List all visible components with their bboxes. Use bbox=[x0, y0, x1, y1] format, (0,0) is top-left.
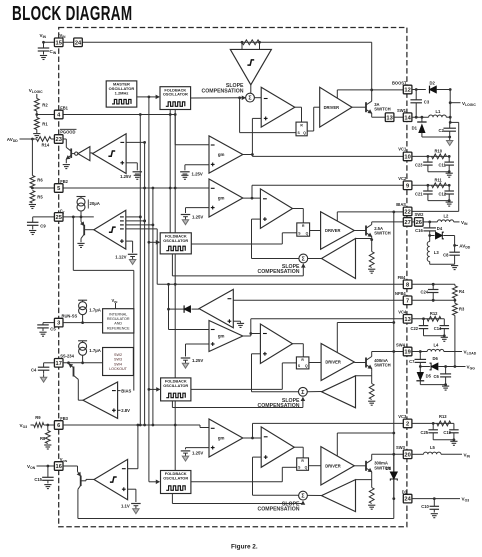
bus FB-A bbox=[139, 115, 141, 426]
svg-text:R11: R11 bbox=[435, 178, 443, 183]
resistor R8 bbox=[47, 425, 49, 431]
wire SW1 line bbox=[412, 116, 429, 118]
pin 3 RUN-SS bbox=[54, 318, 63, 327]
diode D6 bbox=[420, 366, 430, 368]
wire osc1 S to latch1 bbox=[238, 96, 241, 99]
inductor L5 bbox=[424, 452, 442, 454]
pin 12 BOOST bbox=[403, 85, 412, 94]
pin 16 VON bbox=[54, 462, 63, 471]
latch RS1 bbox=[296, 122, 307, 136]
svg-text:REGULATOR: REGULATOR bbox=[107, 317, 130, 321]
svg-text:Q: Q bbox=[305, 466, 308, 470]
comparator CMP2 bbox=[94, 210, 126, 249]
svg-text:8: 8 bbox=[406, 282, 409, 288]
svg-text:SW1: SW1 bbox=[397, 108, 407, 113]
svg-text:PGOOD: PGOOD bbox=[60, 129, 75, 134]
svg-text:AND: AND bbox=[114, 322, 122, 326]
capacitor C14 bbox=[443, 319, 445, 326]
wire clock to osc2 bbox=[148, 241, 151, 244]
wire AVDD col bbox=[454, 236, 456, 253]
ground gm3 ref bbox=[185, 453, 187, 456]
summer S2 bbox=[299, 254, 308, 263]
svg-text:SW4: SW4 bbox=[396, 342, 406, 347]
wires CMP2 FB inputs bbox=[126, 216, 141, 218]
wire VC1 to PWM1 plus bbox=[252, 117, 261, 119]
bus FB-D bbox=[152, 188, 154, 425]
ground NFB plus bbox=[233, 320, 240, 322]
svg-text:BLOCK DIAGRAM: BLOCK DIAGRAM bbox=[12, 1, 132, 25]
ground CMP4 ref bbox=[135, 506, 137, 509]
svg-text:6: 6 bbox=[57, 423, 60, 429]
svg-text:C21: C21 bbox=[415, 191, 423, 196]
pin 10 VC1 bbox=[403, 152, 412, 161]
svg-text:SW2: SW2 bbox=[114, 353, 122, 357]
svg-text:20µA: 20µA bbox=[90, 201, 100, 206]
capacitor C3 bbox=[415, 90, 417, 100]
ground Q3 emitter bbox=[368, 504, 375, 506]
wire clock osc4 bbox=[148, 481, 150, 483]
capacitor C9 bbox=[33, 216, 55, 218]
foldback oscillator 2 box bbox=[160, 233, 191, 254]
driver 1 bbox=[320, 87, 352, 127]
ground CMP2 ref bbox=[132, 257, 134, 260]
wire PWM3 plus loop bbox=[253, 456, 262, 458]
svg-text:L1: L1 bbox=[436, 109, 442, 114]
capacitor C6 bbox=[445, 367, 447, 374]
svg-text:COMPENSATION: COMPENSATION bbox=[258, 269, 300, 275]
svg-text:19: 19 bbox=[404, 350, 410, 356]
diode D2 bbox=[430, 86, 437, 94]
wire driver1 boost rail bbox=[336, 90, 338, 98]
wire PWM1 out to latch bbox=[295, 106, 302, 108]
ground gm1 ref bbox=[181, 174, 188, 176]
svg-text:C6: C6 bbox=[433, 374, 439, 379]
NFB plus bbox=[228, 320, 232, 322]
ground R1 bbox=[33, 133, 40, 135]
svg-text:Q: Q bbox=[305, 364, 308, 368]
capacitor C5 bbox=[43, 322, 54, 324]
svg-text:COMPENSATION: COMPENSATION bbox=[258, 403, 300, 409]
gm2 plus bbox=[211, 207, 215, 209]
svg-text:1.25V: 1.25V bbox=[192, 451, 203, 456]
svg-text:Q: Q bbox=[303, 131, 306, 135]
summer S3 bbox=[299, 491, 308, 500]
capacitor C25 bbox=[432, 423, 434, 429]
svg-text:REFERENCE: REFERENCE bbox=[107, 326, 130, 330]
NFB amplifier bbox=[199, 289, 233, 327]
pin 11 VC4 bbox=[403, 315, 412, 324]
ground CIN bbox=[40, 55, 47, 57]
transistor Q2 2.5A switch bbox=[365, 226, 367, 236]
wire sense2 top bbox=[356, 238, 372, 240]
svg-text:RUN-SS: RUN-SS bbox=[62, 313, 78, 318]
PWM1 plus bbox=[264, 117, 268, 119]
wire PWM3 out latch3 bbox=[294, 446, 303, 448]
svg-text:1.25V: 1.25V bbox=[192, 172, 203, 177]
svg-text:DRIVER: DRIVER bbox=[325, 463, 341, 468]
bus FB-B bbox=[144, 142, 146, 425]
transistor Q3 300mA switch bbox=[365, 461, 367, 471]
wire D3 out bbox=[412, 498, 460, 500]
driver 3 bbox=[321, 447, 354, 485]
diode D8 bbox=[393, 454, 395, 472]
svg-text:gm: gm bbox=[218, 436, 225, 441]
wire FB4 node down bbox=[168, 284, 170, 329]
svg-text:2: 2 bbox=[406, 422, 409, 428]
svg-text:SW3: SW3 bbox=[114, 358, 122, 362]
wire CMP3 2.8v bbox=[118, 409, 121, 411]
diode D1 bbox=[421, 117, 423, 121]
svg-text:C5: C5 bbox=[50, 326, 56, 331]
wire CMP3 bias bbox=[118, 390, 121, 392]
svg-text:1.25V: 1.25V bbox=[192, 214, 203, 219]
diode D5 bbox=[419, 367, 421, 373]
PWM comparator 1 bbox=[261, 87, 295, 127]
wire FB4 long bbox=[157, 283, 403, 285]
wire clock osc3 bbox=[148, 388, 151, 391]
driver 2 bbox=[321, 212, 355, 250]
svg-text:gm: gm bbox=[218, 152, 225, 157]
pin 22 BIAS bbox=[403, 207, 412, 216]
svg-text:R12: R12 bbox=[430, 311, 438, 316]
svg-text:SW3: SW3 bbox=[396, 445, 406, 450]
pin 2 VC3 bbox=[403, 419, 412, 428]
svg-text:VC2: VC2 bbox=[398, 176, 407, 181]
capacitor C19 bbox=[453, 423, 455, 429]
gm amp 3 bbox=[209, 419, 243, 457]
pin 4 FB1 bbox=[54, 110, 63, 119]
inductor L4 bbox=[427, 349, 444, 351]
resistor R14 bbox=[37, 137, 52, 142]
ground C15 bbox=[44, 484, 51, 486]
svg-text:C14: C14 bbox=[434, 326, 442, 331]
svg-text:OSCILLATOR: OSCILLATOR bbox=[163, 476, 188, 481]
wire Q4 emitter bbox=[371, 372, 373, 384]
gm4 minus bbox=[211, 329, 215, 331]
CMP4 minus bbox=[122, 468, 126, 470]
ground gm2 ref bbox=[185, 217, 187, 220]
svg-text:FB2: FB2 bbox=[60, 179, 68, 184]
capacitor C23 bbox=[427, 156, 429, 162]
svg-text:R8: R8 bbox=[40, 436, 46, 441]
wire gm3 out VC3 bbox=[243, 437, 261, 439]
pin 23 PGOOD bbox=[54, 135, 63, 144]
svg-text:R2: R2 bbox=[42, 102, 48, 107]
gm3 plus bbox=[211, 447, 215, 449]
svg-text:C19: C19 bbox=[443, 430, 451, 435]
pin 5 FB2 bbox=[54, 184, 63, 193]
svg-text:3: 3 bbox=[57, 321, 60, 327]
wire NFB4 long bbox=[233, 299, 403, 301]
pin 14 SW1 bbox=[403, 113, 412, 122]
pin 26 SW2 bbox=[415, 218, 424, 227]
svg-text:D2: D2 bbox=[430, 80, 436, 85]
svg-text:1.7µA: 1.7µA bbox=[89, 307, 101, 312]
svg-text:1.7µA: 1.7µA bbox=[89, 348, 101, 353]
wire FB3 inside bbox=[63, 424, 153, 426]
ground Q2 emitter bbox=[368, 268, 375, 270]
capacitor C10 bbox=[433, 499, 435, 507]
gm amp 1 bbox=[209, 136, 243, 173]
sense amp 4 bbox=[322, 376, 356, 408]
svg-text:10: 10 bbox=[404, 155, 410, 161]
svg-text:BIAS: BIAS bbox=[121, 389, 131, 394]
svg-text:C12: C12 bbox=[439, 191, 447, 196]
svg-text:INTERNAL: INTERNAL bbox=[109, 312, 127, 316]
svg-text:SWITCH: SWITCH bbox=[374, 363, 391, 368]
svg-text:SS-234: SS-234 bbox=[60, 353, 74, 358]
ground Q-CT bbox=[77, 242, 84, 244]
reference 1.25V gm1 bbox=[180, 171, 190, 173]
inductor L1 bbox=[429, 115, 447, 117]
wire CMP4 ref bbox=[128, 488, 136, 490]
wire D5 C6 rail bbox=[420, 384, 445, 386]
transistor Q-CT bbox=[83, 225, 85, 236]
wire SW2 node bbox=[412, 221, 414, 223]
svg-text:DRIVER: DRIVER bbox=[325, 228, 341, 233]
svg-text:13: 13 bbox=[404, 317, 410, 323]
svg-text:VC3: VC3 bbox=[398, 414, 407, 419]
internal regulator box bbox=[103, 309, 134, 333]
capacitor C16 bbox=[429, 222, 431, 228]
pin 19 SW4 bbox=[403, 347, 412, 356]
resistor R4 bbox=[454, 284, 456, 286]
svg-text:COMPENSATION: COMPENSATION bbox=[258, 507, 300, 513]
capacitor C24 bbox=[432, 284, 434, 289]
wire CT routing bbox=[72, 217, 74, 271]
wire gm4 ref bbox=[186, 343, 210, 345]
reference 1.25V gm4 bbox=[181, 357, 191, 359]
wire Q2 emitter bbox=[371, 240, 373, 252]
svg-text:D1: D1 bbox=[412, 125, 418, 130]
capacitor C2 bbox=[449, 122, 451, 128]
svg-text:1.1V: 1.1V bbox=[121, 504, 130, 509]
CMP3 minus bbox=[112, 390, 116, 392]
wire latch1 Q to driver1 bbox=[307, 130, 314, 132]
wire vlogic to bias bbox=[450, 121, 459, 123]
comparator CMP4 bbox=[94, 459, 128, 499]
wire CMP1 ref bbox=[126, 162, 137, 164]
wire driver2 bias rail bbox=[336, 212, 338, 221]
svg-text:14: 14 bbox=[404, 115, 411, 121]
wire VC4 gnd rail bbox=[424, 335, 445, 337]
pin 9 VC2 bbox=[403, 181, 412, 190]
gm4 plus bbox=[211, 343, 215, 345]
current source 1.7uA run bbox=[78, 299, 87, 301]
wire CT node bbox=[63, 216, 94, 218]
svg-text:C23: C23 bbox=[415, 162, 423, 167]
wire driver3 rail bbox=[336, 433, 338, 456]
diode D-NFB bbox=[192, 308, 200, 310]
wire AVDD down bbox=[31, 139, 33, 176]
lockout box bbox=[103, 348, 134, 376]
sense resistor on VIN rail bbox=[241, 41, 244, 44]
wire osc2 out S2 bbox=[191, 243, 282, 245]
sense amp 3 bbox=[322, 480, 356, 512]
capacitor CIN bbox=[43, 42, 45, 48]
svg-text:DRIVER: DRIVER bbox=[325, 360, 341, 365]
svg-text:R3: R3 bbox=[459, 307, 465, 312]
svg-text:R10: R10 bbox=[435, 149, 443, 154]
wire Q4 collector SW4 bbox=[372, 351, 404, 353]
svg-text:C10: C10 bbox=[421, 504, 429, 509]
svg-text:LOCKOUT: LOCKOUT bbox=[109, 367, 128, 371]
svg-text:C8: C8 bbox=[443, 252, 449, 257]
ground C5 bbox=[39, 331, 46, 333]
pin 8 FB4 bbox=[403, 280, 412, 289]
capacitor C15 bbox=[47, 466, 49, 477]
gm amp 2 bbox=[209, 179, 243, 217]
PWM1 minus bbox=[264, 98, 268, 100]
wire CMP1 minus to FB bus bbox=[126, 141, 145, 143]
svg-text:L5: L5 bbox=[430, 445, 436, 450]
resistor R6 bbox=[30, 176, 35, 189]
resistor R5 bbox=[30, 191, 35, 204]
svg-text:20: 20 bbox=[404, 452, 410, 458]
summer S1 bbox=[246, 93, 255, 102]
svg-text:C7: C7 bbox=[409, 359, 415, 364]
transistor Q4 400mA switch bbox=[365, 358, 367, 368]
svg-text:R13: R13 bbox=[439, 414, 447, 419]
svg-text:SW2: SW2 bbox=[415, 212, 425, 217]
gm3 minus bbox=[211, 427, 215, 429]
capacitor C21 bbox=[427, 185, 429, 191]
svg-text:13: 13 bbox=[386, 115, 392, 121]
ground VC3 net bbox=[450, 440, 457, 442]
pin 27 bbox=[403, 218, 412, 227]
svg-text:L3: L3 bbox=[434, 250, 440, 255]
latch RS3 bbox=[297, 458, 309, 470]
resistor R9 bbox=[34, 423, 44, 428]
svg-text:C22: C22 bbox=[410, 326, 418, 331]
current source 1.7uA ss bbox=[78, 340, 87, 342]
wire sense2 out bbox=[308, 258, 322, 260]
capacitor C11 bbox=[448, 156, 450, 162]
foldback oscillator 3 box bbox=[161, 378, 191, 401]
bus FB-E bbox=[156, 229, 158, 284]
gm1 minus bbox=[211, 144, 215, 146]
svg-text:R9: R9 bbox=[35, 415, 41, 420]
PWM3 minus bbox=[264, 436, 268, 438]
inverter U2 bbox=[90, 152, 93, 154]
svg-text:C24: C24 bbox=[420, 290, 428, 295]
svg-text:R5: R5 bbox=[37, 194, 43, 199]
resistor Q4 emitter bbox=[369, 384, 374, 400]
wire osc4 slope bbox=[171, 494, 173, 504]
wire R3 to VGG bbox=[454, 315, 456, 366]
pin 6 FB3 bbox=[54, 421, 63, 430]
transistor Q-PGOOD bbox=[71, 153, 74, 155]
wire CMP2 ref bbox=[126, 240, 133, 242]
svg-text:gm: gm bbox=[218, 196, 225, 201]
svg-text:OSCILLATOR: OSCILLATOR bbox=[163, 238, 188, 243]
svg-text:R14: R14 bbox=[42, 142, 50, 147]
wire FB4 ext bbox=[412, 283, 455, 285]
wire sense3 top bbox=[356, 479, 372, 481]
pin 15 VIN bbox=[54, 38, 63, 47]
ground C2 bbox=[449, 138, 451, 141]
capacitor C4 bbox=[44, 362, 55, 364]
wire FB2 bbox=[31, 187, 34, 190]
ground Q4 emitter bbox=[368, 400, 375, 402]
svg-text:24: 24 bbox=[404, 497, 411, 503]
PWM comparator 3 bbox=[261, 427, 294, 467]
resistor Q2 emitter bbox=[369, 252, 374, 268]
pin 20 SW3 bbox=[403, 450, 412, 459]
wire comp2 gnd rail bbox=[428, 200, 449, 202]
svg-text:C9: C9 bbox=[40, 223, 46, 228]
svg-text:D8: D8 bbox=[386, 466, 392, 471]
PWM4 minus bbox=[263, 333, 267, 335]
transistor Q-VON bbox=[63, 465, 77, 467]
bus FB foldback short bbox=[169, 110, 171, 233]
svg-text:D6: D6 bbox=[433, 356, 439, 361]
capacitor C7 bbox=[419, 352, 421, 360]
ground C10 bbox=[431, 513, 438, 515]
PWM2 minus bbox=[263, 198, 267, 200]
resistor Q3 emitter bbox=[369, 488, 374, 504]
wire sepic gnd rail bbox=[430, 263, 455, 265]
latch RS4 bbox=[296, 357, 309, 369]
wire PWM2 plus loop bbox=[252, 218, 261, 220]
wire VC3 gnd rail bbox=[433, 439, 454, 441]
svg-text:D5: D5 bbox=[426, 374, 432, 379]
wire SS-234 node bbox=[63, 362, 103, 364]
svg-text:L4: L4 bbox=[434, 342, 440, 347]
svg-text:9: 9 bbox=[406, 183, 409, 189]
current source 20uA bbox=[77, 196, 86, 198]
svg-text:17: 17 bbox=[56, 361, 62, 367]
wire VC1 net bbox=[412, 155, 449, 157]
svg-text:DRIVER: DRIVER bbox=[324, 105, 340, 110]
pin 13 bbox=[385, 113, 394, 122]
svg-text:SWITCH: SWITCH bbox=[374, 231, 391, 236]
wire sense3 out bbox=[307, 494, 321, 496]
svg-text:C2: C2 bbox=[439, 128, 445, 133]
svg-text:Figure 2.: Figure 2. bbox=[231, 544, 258, 551]
wire SW4 node bbox=[412, 351, 427, 353]
resistor R10 bbox=[432, 154, 447, 159]
ground R8 bbox=[44, 444, 51, 446]
svg-text:C11: C11 bbox=[439, 162, 447, 167]
svg-text:5: 5 bbox=[57, 186, 60, 192]
svg-text:D4: D4 bbox=[437, 226, 443, 231]
inductor L2 bbox=[437, 220, 453, 222]
svg-text:FB3: FB3 bbox=[60, 416, 68, 421]
reference 1.25V gm2 bbox=[181, 214, 191, 216]
wire D1 C2 gnd rail bbox=[422, 136, 450, 138]
svg-text:22: 22 bbox=[404, 210, 410, 216]
bus FB foldback main bbox=[174, 110, 176, 471]
gm1 plus bbox=[211, 163, 215, 165]
svg-text:COMPENSATION: COMPENSATION bbox=[202, 89, 244, 95]
transistor Q1 3A switch bbox=[365, 102, 367, 112]
wire NFB4 ext bbox=[412, 299, 455, 301]
wire comp1 gnd rail bbox=[428, 171, 449, 173]
resistor R2 bbox=[34, 99, 39, 112]
wire RUN-SS node bbox=[63, 322, 103, 324]
wire sense4 top bbox=[356, 375, 372, 377]
svg-text:C15: C15 bbox=[34, 477, 42, 482]
resistor R13 bbox=[437, 421, 451, 426]
svg-text:C25: C25 bbox=[420, 430, 428, 435]
svg-text:27: 27 bbox=[404, 220, 410, 226]
wire vlogic col bbox=[449, 88, 452, 91]
wire boost node bbox=[412, 89, 426, 91]
ground C4 bbox=[43, 374, 45, 377]
wire VC2 net bbox=[412, 184, 449, 186]
svg-text:R6: R6 bbox=[37, 178, 43, 183]
